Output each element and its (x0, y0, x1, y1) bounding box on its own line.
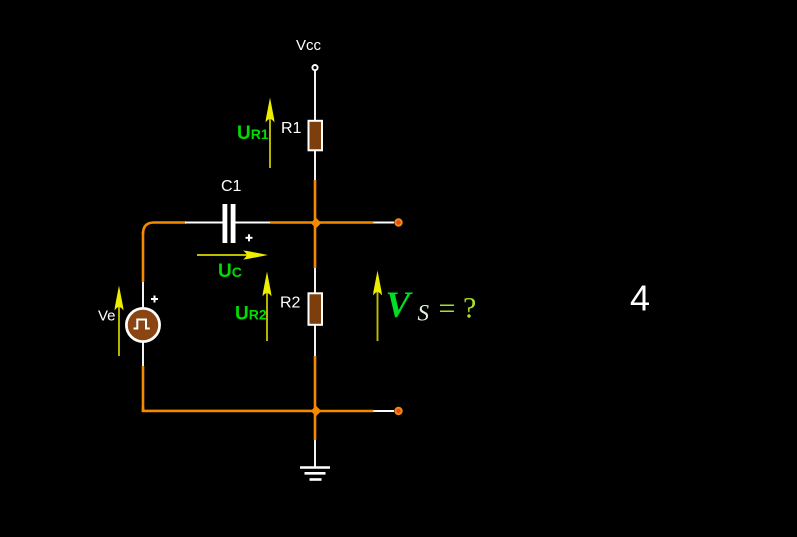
resistor R2 (309, 293, 323, 325)
wire Vcc to R1 (314, 71, 316, 122)
wire left rail lower (orange) (142, 366, 145, 412)
terminal dot bottom right (395, 408, 401, 414)
wire source bottom lead (white) (142, 342, 144, 366)
svg-text:R2: R2 (280, 295, 301, 312)
polarity + of source (151, 296, 158, 303)
arrow Ve (115, 286, 124, 357)
wire R1 to node (white part) (314, 150, 316, 180)
capacitor C1 (223, 204, 236, 243)
wire ground lead (white) (314, 440, 316, 467)
resistor R1 (309, 121, 323, 151)
svg-text:?: ? (463, 292, 476, 325)
wire cap left lead (white) (185, 222, 223, 224)
wire cap to node (orange) (270, 221, 316, 224)
svg-text:S: S (418, 301, 430, 326)
arrow UR2 (263, 272, 272, 342)
svg-text:V: V (386, 285, 414, 326)
svg-text:UR2: UR2 (235, 304, 267, 325)
svg-text:Ve: Ve (98, 308, 116, 325)
label VS = ? (386, 285, 477, 326)
svg-text:=: = (439, 292, 456, 325)
wire left rail upper (orange) (142, 232, 145, 282)
svg-text:4: 4 (630, 278, 650, 319)
junction node bottom (311, 406, 322, 416)
terminal dot top right (395, 219, 401, 225)
arrow UC (197, 251, 268, 260)
wire R2 bottom lead (white) (314, 325, 316, 356)
svg-text:R1: R1 (281, 120, 302, 137)
wire right stub bottom (white) (374, 410, 395, 412)
wire node to R2 (orange) (314, 223, 317, 268)
svg-text:UR1: UR1 (237, 123, 269, 144)
svg-text:UC: UC (218, 261, 242, 282)
wire source top lead (white) (142, 282, 144, 308)
wire bottom node to right stub (orange) (316, 410, 374, 413)
source V1 (pulse generator) (126, 308, 159, 341)
polarity + of C1 (246, 234, 253, 241)
wire node to ground (orange) (314, 411, 317, 440)
wire top rail: corner at left (rounded) (143, 223, 186, 235)
wire bottom rail left (orange) (143, 407, 316, 411)
junction node top (311, 218, 322, 228)
wire cap right lead (white) (236, 222, 272, 224)
svg-text:C1: C1 (221, 178, 242, 195)
wire R2 top lead (white) (314, 268, 316, 294)
source waveform symbol (134, 320, 150, 329)
terminal Vcc (312, 65, 317, 70)
wire R1 to node (orange part) (314, 180, 317, 223)
svg-text:Vcc: Vcc (296, 37, 322, 54)
wire node to right stub (orange) (316, 221, 374, 224)
wire right stub (white) (374, 222, 395, 224)
arrow VS (373, 271, 382, 342)
arrow UR1 (266, 98, 275, 169)
ground (300, 468, 330, 480)
wire R2 to bottom node (orange) (314, 356, 317, 411)
